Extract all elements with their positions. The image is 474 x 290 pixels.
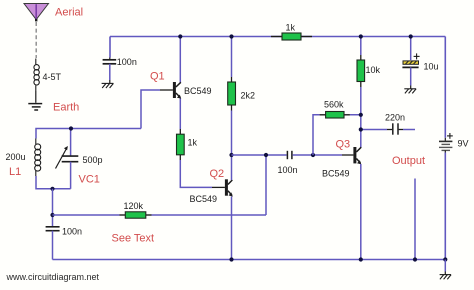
inductor aerial coupling coil 4-5T xyxy=(34,59,39,92)
resistor R 1k (emitter) xyxy=(177,134,185,155)
node junction top rail Q1 xyxy=(178,34,182,38)
svg-text:560k: 560k xyxy=(324,100,344,110)
wire output return stub xyxy=(414,179,416,260)
ground chassis bottom right xyxy=(440,275,452,280)
svg-text:100n: 100n xyxy=(278,165,298,175)
node junction Q3 emitter rail xyxy=(359,257,363,261)
svg-text:9V: 9V xyxy=(458,139,469,149)
svg-text:2k2: 2k2 xyxy=(241,91,256,101)
svg-text:Q3: Q3 xyxy=(336,139,351,151)
wire top rail V+ xyxy=(110,36,445,38)
wire 2k2 lower to mid node xyxy=(231,105,233,155)
svg-text:1k: 1k xyxy=(188,138,198,148)
wire mid coupling left xyxy=(232,154,287,156)
label 100n (coupling) xyxy=(278,165,298,175)
label BC549 (Q3) xyxy=(322,169,350,179)
label 1k (top) xyxy=(286,23,296,33)
label 100n (top left) xyxy=(117,57,137,67)
label Earth xyxy=(53,102,79,114)
node junction battery rail xyxy=(443,257,447,261)
wire Q1 base run xyxy=(141,90,173,129)
svg-text:120k: 120k xyxy=(124,201,144,211)
svg-text:1k: 1k xyxy=(286,23,296,33)
label 10u xyxy=(424,62,439,72)
resistor R 2k2 xyxy=(228,82,236,105)
wire C1 to chassis ground xyxy=(109,64,111,84)
svg-text:L1: L1 xyxy=(9,166,21,178)
wire 1k to Q2 base xyxy=(180,155,225,188)
svg-text:Q2: Q2 xyxy=(210,168,225,180)
node junction top rail 10k xyxy=(359,34,363,38)
wire right rail (battery branch) xyxy=(444,37,446,260)
wire dashed aerial lead xyxy=(35,22,37,58)
label 220n xyxy=(385,113,405,123)
svg-text:500p: 500p xyxy=(83,155,103,165)
svg-text:100n: 100n xyxy=(62,227,82,237)
ground chassis under 10u xyxy=(404,89,416,94)
label 10k xyxy=(366,65,381,75)
node junction Q2 emitter rail xyxy=(229,257,233,261)
label BC549 (Q1) xyxy=(184,86,212,96)
node junction 560k right xyxy=(359,113,363,117)
label 4-5T xyxy=(43,72,62,82)
transistor Q3 BC549 xyxy=(353,147,361,164)
svg-text:100n: 100n xyxy=(117,57,137,67)
svg-text:200u: 200u xyxy=(6,152,26,162)
label 9V xyxy=(458,139,469,149)
ground chassis under C1 xyxy=(102,83,114,88)
wire V+ left drop to C1 xyxy=(109,37,111,60)
wire Q3 emitter to rail xyxy=(360,164,362,260)
capacitor C 100n coupling xyxy=(287,151,292,159)
wire Q1 emitter to R 1k xyxy=(179,99,181,135)
capacitor C 100n (top left decoupling) xyxy=(103,60,117,64)
node junction top rail 10u xyxy=(409,34,413,38)
label Output xyxy=(392,155,425,167)
node junction tank bottom xyxy=(50,187,54,191)
capacitor C 100n (bottom left) xyxy=(46,227,60,231)
svg-text:220n: 220n xyxy=(385,113,405,123)
wire 10u to chassis ground xyxy=(410,67,412,88)
capacitor C 220n xyxy=(393,123,398,134)
wire C2 to bottom rail xyxy=(52,231,54,260)
wire left node drop to C2 xyxy=(52,189,54,227)
wire Q2 collector xyxy=(231,155,233,180)
label See Text xyxy=(112,233,155,245)
label Q1 xyxy=(150,71,165,83)
label 560k xyxy=(324,100,344,110)
label Aerial xyxy=(55,7,83,19)
label 200u xyxy=(6,152,26,162)
svg-text:VC1: VC1 xyxy=(79,174,100,186)
label 100n (bottom left) xyxy=(62,227,82,237)
resistor R 560k xyxy=(320,112,350,119)
wire bottom rail (ground net) xyxy=(53,259,446,261)
inductor L1 200u xyxy=(35,139,41,177)
wire L1 bottom xyxy=(36,176,71,189)
svg-text:10k: 10k xyxy=(366,65,381,75)
wire Q1 collector riser xyxy=(179,37,181,84)
svg-text:www.circuitdiagram.net: www.circuitdiagram.net xyxy=(6,272,100,282)
label VC1 xyxy=(79,174,100,186)
resistor R 10k xyxy=(357,60,365,82)
wire 10k lower to Q3 collector xyxy=(360,82,362,148)
node junction 220n tap xyxy=(359,127,363,131)
label www.circuitdiagram.net xyxy=(6,272,100,282)
svg-text:Aerial: Aerial xyxy=(55,7,83,19)
svg-text:Earth: Earth xyxy=(53,102,79,114)
svg-text:BC549: BC549 xyxy=(184,86,212,96)
transistor Q2 BC549 xyxy=(225,179,233,196)
wire 2k2 branch upper xyxy=(231,37,233,83)
wire feedback 120k run xyxy=(53,155,267,215)
svg-text:Q1: Q1 xyxy=(150,71,165,83)
node junction 560k bottom xyxy=(311,153,315,157)
label Q3 xyxy=(336,139,351,151)
node junction output stub rail xyxy=(413,257,417,261)
svg-text:BC549: BC549 xyxy=(190,194,218,204)
wire 10k branch upper xyxy=(360,37,362,61)
capacitor C 10u electrolytic xyxy=(402,53,419,67)
ground earth symbol xyxy=(28,104,42,110)
svg-text:BC549: BC549 xyxy=(322,169,350,179)
transistor Q1 BC549 xyxy=(173,82,181,99)
capacitor VC1 500p variable xyxy=(56,146,79,189)
svg-text:4-5T: 4-5T xyxy=(43,72,62,82)
wire 220n right lead output stub xyxy=(399,129,415,131)
label 120k xyxy=(124,201,144,211)
node junction Q2 collector mid wire xyxy=(229,153,233,157)
wire 220n left lead xyxy=(361,129,392,131)
node junction 120k tap xyxy=(50,213,54,217)
label Q2 xyxy=(210,168,225,180)
svg-text:Output: Output xyxy=(392,155,425,167)
label 500p xyxy=(83,155,103,165)
label 1k (emitter) xyxy=(188,138,198,148)
label 2k2 xyxy=(241,91,256,101)
resistor R 120k xyxy=(120,212,152,218)
resistor R 1k (top rail series) xyxy=(271,33,312,40)
label L1 xyxy=(9,166,21,178)
wire tank top (L1/VC1 to Q1 base riser) xyxy=(36,129,141,157)
antenna aerial symbol xyxy=(24,4,49,22)
node junction feedback tap xyxy=(264,153,268,157)
wire coil to earth xyxy=(35,91,37,103)
wire mid coupling right to Q3 base xyxy=(293,154,354,156)
wire 10u branch upper xyxy=(410,37,412,61)
svg-text:See Text: See Text xyxy=(112,233,155,245)
wire 560k run xyxy=(313,115,361,155)
node junction top rail 2k2 xyxy=(229,34,233,38)
wire battery negative to chassis ground xyxy=(444,260,446,275)
svg-text:10u: 10u xyxy=(424,62,439,72)
wire Q2 emitter to rail xyxy=(231,197,233,260)
label BC549 (Q2) xyxy=(190,194,218,204)
node junction tank top xyxy=(69,126,73,130)
battery BT 9V xyxy=(439,133,453,153)
